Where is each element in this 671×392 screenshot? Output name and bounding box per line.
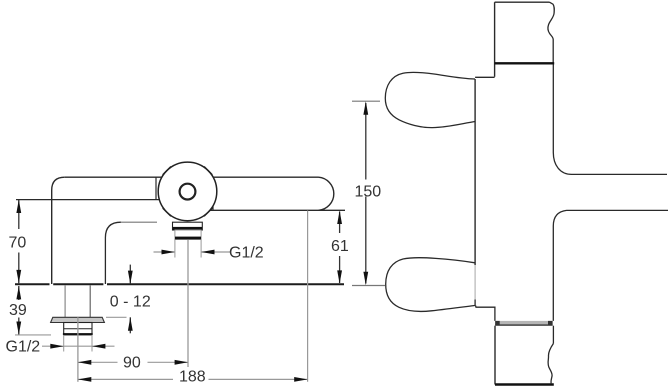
dim G1/2 inlet leader line (42, 345, 115, 347)
body right rounded end cap (319, 177, 334, 210)
body barrel bottom edge (also 61 extension) (209, 209, 346, 211)
dim 39 line (18, 286, 20, 335)
inlet nut divider line (64, 328, 92, 330)
dim 0-12 lower leg with up arrow (129, 317, 131, 333)
dim 39 bottom extension line (15, 334, 51, 336)
body left edge between knobs (474, 79, 476, 265)
dim 90 arrow right (175, 360, 188, 365)
svg-text:188: 188 (179, 369, 206, 386)
dim 70 arrow down (16, 270, 21, 283)
bottom block right wavy break edge (548, 344, 553, 384)
joint band end mark right (548, 321, 553, 325)
svg-text:G1/2: G1/2 (6, 339, 41, 356)
dim 39 arrow down (16, 322, 21, 335)
dim 150 line (365, 103, 367, 284)
bottom block top joint band (495, 321, 552, 324)
dim 150 arrow down (363, 272, 368, 285)
body left arm inner edge with corner (105, 222, 121, 284)
svg-text:150: 150 (355, 184, 382, 201)
dim 61 line (339, 212, 341, 284)
extension line at right under barrel (for 188) (307, 211, 309, 382)
svg-text:90: 90 (123, 355, 141, 372)
inlet nut (64, 323, 92, 335)
bar end seam left of handle (155, 177, 157, 199)
dim 61 arrow down (337, 270, 342, 283)
body shoulder step below top block (475, 76, 495, 78)
spout collar under handle (173, 222, 203, 230)
spout collar shadow band (173, 227, 202, 230)
left inlet shank pipe edges below deck (64, 285, 66, 317)
svg-text:70: 70 (9, 235, 27, 252)
svg-text:39: 39 (9, 302, 27, 319)
dim 188 arrow right (294, 377, 307, 382)
dim G1/2 spout leader line (154, 251, 231, 253)
spout thread piece (175, 230, 201, 239)
upper control knob (side view) (385, 72, 475, 127)
lower control knob (side view) (386, 258, 476, 312)
spout thread bottom band (175, 237, 201, 240)
dim 188 line (78, 378, 308, 380)
handle chamfer mark lower-right (204, 208, 212, 216)
dim 0-12 upper leg with down arrow (129, 265, 131, 284)
top block right wavy break edge (548, 2, 554, 62)
barrel end seam right of handle (mostly hidden by handle) (212, 177, 214, 210)
body right edge lower fillet from spout (553, 210, 566, 321)
dim 150 extension bottom (352, 285, 385, 287)
dim 39 arrow up (16, 286, 21, 299)
body lower-left step (476, 305, 495, 321)
dim 188 arrow left (78, 377, 91, 382)
dim G1/2 inlet arrow left-pointing (92, 344, 105, 349)
bottom block left edge (494, 326, 496, 385)
wire deck/mounting surface line (15, 283, 344, 285)
inlet nut bottom band (63, 333, 93, 335)
body left edge lower tip (474, 300, 476, 306)
bottom block right edge upper (552, 326, 554, 344)
spout thread extension stubs (174, 239, 176, 257)
joint band end mark left (495, 321, 500, 325)
body thin-bar bottom edge merged with 70 extension line (16, 199, 160, 201)
dim 150 extension top (352, 100, 380, 102)
inlet centerline (77, 317, 79, 382)
top block bold bottom joint line (495, 62, 555, 64)
dim G1/2 inlet arrow right-pointing (50, 344, 63, 349)
dim 90 arrow left (78, 360, 91, 365)
handle outer circle (158, 162, 217, 221)
inlet flange washer (51, 317, 105, 322)
dim G1/2 spout arrow right-pointing (162, 250, 175, 255)
handle center hub circle (180, 184, 196, 200)
body left arm outer edge (52, 177, 65, 284)
dim 150 arrow up (363, 101, 368, 114)
bottom block joint underline (495, 324, 552, 326)
dim 0-12 extension from flange top (106, 316, 127, 318)
body left edge faint through lower knob root (474, 265, 476, 300)
tub spout bottom line (567, 209, 669, 211)
handle chamfer mark upper-left (163, 167, 171, 175)
body arm inner top edge to spout collar (121, 221, 157, 223)
dim 70 line (18, 200, 20, 284)
dim 90 line (78, 361, 188, 363)
body top edge (65, 176, 319, 178)
body right edge upper with spout fillet (553, 64, 571, 174)
bottom block bold bottom line (495, 383, 554, 385)
dim 70 arrow up (16, 200, 21, 213)
handle chamfer mark lower-left (163, 208, 171, 216)
top shower pipe block left edge (494, 2, 496, 77)
handle chamfer mark upper-right (204, 167, 212, 175)
svg-text:61: 61 (331, 238, 349, 255)
svg-text:0 - 12: 0 - 12 (110, 294, 151, 311)
dim 61 arrow up (337, 211, 342, 224)
dim G1/2 spout arrow left-pointing (201, 250, 214, 255)
spout centerline (187, 239, 189, 367)
inlet thread extension stubs (63, 335, 65, 352)
svg-text:G1/2: G1/2 (229, 245, 264, 262)
top block top edge (495, 1, 550, 3)
tub spout top line (572, 173, 668, 175)
